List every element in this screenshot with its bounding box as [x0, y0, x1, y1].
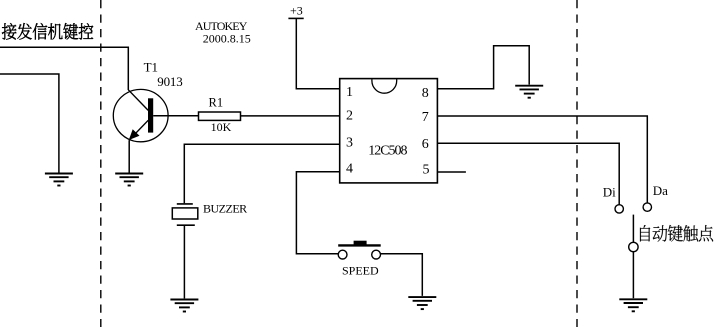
- svg-text:SPEED: SPEED: [342, 264, 379, 278]
- wire: IC pin 7 to Da contact: [437, 116, 647, 203]
- speed switch bar: [338, 244, 381, 246]
- wire: IC pin 5 stub: [437, 171, 466, 173]
- svg-text:12C508: 12C508: [368, 144, 407, 159]
- label: 自动键触点 (auto key contacts): [640, 225, 713, 242]
- IC U1 notch: [372, 79, 397, 93]
- svg-text:R1: R1: [209, 96, 224, 110]
- transistor T1 body circle: [113, 89, 168, 141]
- svg-text:6: 6: [422, 137, 429, 152]
- svg-text:2000.8.15: 2000.8.15: [203, 32, 251, 46]
- svg-text:Di: Di: [603, 184, 616, 199]
- wire: +3 to IC pin 1: [296, 18, 339, 88]
- svg-text:8: 8: [422, 86, 429, 101]
- svg-text:3: 3: [346, 136, 353, 151]
- svg-text:9013: 9013: [157, 74, 182, 89]
- ground (emitter): [115, 174, 143, 186]
- wire: IC pin 4 to speed switch: [296, 172, 339, 254]
- supply rail bar: [288, 17, 303, 19]
- ground (speed): [408, 297, 436, 309]
- label: 接发信机键控 (keying to transceiver): [2, 23, 93, 40]
- wire: keying line to T1 collector: [0, 47, 128, 90]
- wire: speed switch to ground: [381, 254, 423, 296]
- node Da contact: [643, 203, 651, 211]
- resistor R1 body: [199, 112, 241, 120]
- op IC U1 12C508 body: [340, 79, 438, 183]
- ground (paddle common): [619, 299, 647, 311]
- svg-text:+3: +3: [290, 4, 303, 18]
- wire: buzzer to ground: [183, 225, 185, 298]
- ground (keying return): [45, 174, 73, 186]
- ground (buzzer): [170, 300, 198, 312]
- wire: paddle common to ground: [632, 252, 634, 299]
- wire: IC pin 8 to ground: [437, 46, 529, 89]
- wire: keying return to ground: [0, 74, 59, 173]
- speed switch left contact: [338, 250, 347, 259]
- svg-text:T1: T1: [144, 59, 158, 74]
- transistor T1 emitter diagonal: [129, 120, 148, 140]
- speed switch right contact: [372, 250, 381, 259]
- ground (pin 8): [515, 86, 543, 98]
- node paddle common contact: [629, 242, 638, 251]
- wire: paddle common upper: [632, 215, 634, 243]
- svg-text:2: 2: [346, 109, 353, 124]
- svg-text:1: 1: [346, 85, 353, 100]
- section divider dashed line (left): [100, 0, 102, 327]
- buzzer top plate: [177, 203, 193, 205]
- wire: R1 to IC pin 2: [241, 115, 340, 117]
- node Di contact: [615, 205, 623, 213]
- svg-text:7: 7: [422, 110, 429, 125]
- svg-text:BUZZER: BUZZER: [203, 202, 247, 216]
- wire: IC pin 3 to buzzer: [184, 144, 339, 203]
- svg-text:4: 4: [346, 161, 353, 176]
- speed switch button cap: [354, 241, 367, 246]
- section divider dashed line (right): [576, 0, 578, 327]
- transistor T1 base bar: [148, 98, 153, 132]
- svg-text:Da: Da: [653, 183, 668, 198]
- wire: IC pin 6 to Di contact: [437, 143, 619, 205]
- buzzer body: [172, 208, 198, 219]
- svg-text:10K: 10K: [211, 120, 232, 134]
- wire: base to R1: [153, 115, 198, 117]
- wire: emitter to ground: [128, 140, 130, 172]
- transistor T1 collector diagonal: [128, 90, 148, 111]
- svg-text:5: 5: [423, 162, 430, 177]
- buzzer bottom plate: [177, 224, 195, 226]
- transistor T1 emitter arrow: [129, 129, 140, 140]
